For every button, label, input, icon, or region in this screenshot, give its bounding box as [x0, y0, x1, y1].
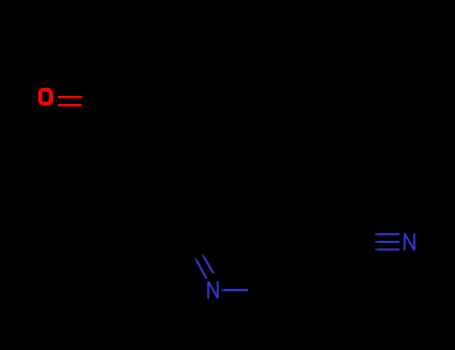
connector from upper ring to pyridine C5 (black)	[214, 113, 227, 195]
ketone oxygen O (red letter)	[40, 90, 51, 104]
nitrile nitrogen N (blue letter)	[405, 233, 415, 250]
carbonyl carbon to upper ring bond (black)	[104, 65, 144, 101]
upper carbocyclic ring (black, invisible)	[144, 17, 254, 112]
pyridine nitrogen N (blue letter)	[208, 281, 217, 298]
pyridine ring black bonds	[186, 194, 296, 289]
C=O double bond, red half (two parallel lines)	[58, 96, 83, 107]
nitrile C#N triple bond, carbon half (black, invisible)	[355, 234, 375, 249]
pyridine N1=C6 double bond, blue half (two diagonal stubs)	[195, 255, 213, 279]
pyridine N1-C2 single bond, blue half (horizontal stub)	[222, 289, 249, 291]
bond from pyridine C3 to nitrile carbon (black)	[296, 241, 355, 244]
nitrile C#N triple bond, blue half (three parallel lines)	[375, 233, 399, 250]
C=O double bond, carbon half (black, invisible on black)	[83, 97, 104, 105]
